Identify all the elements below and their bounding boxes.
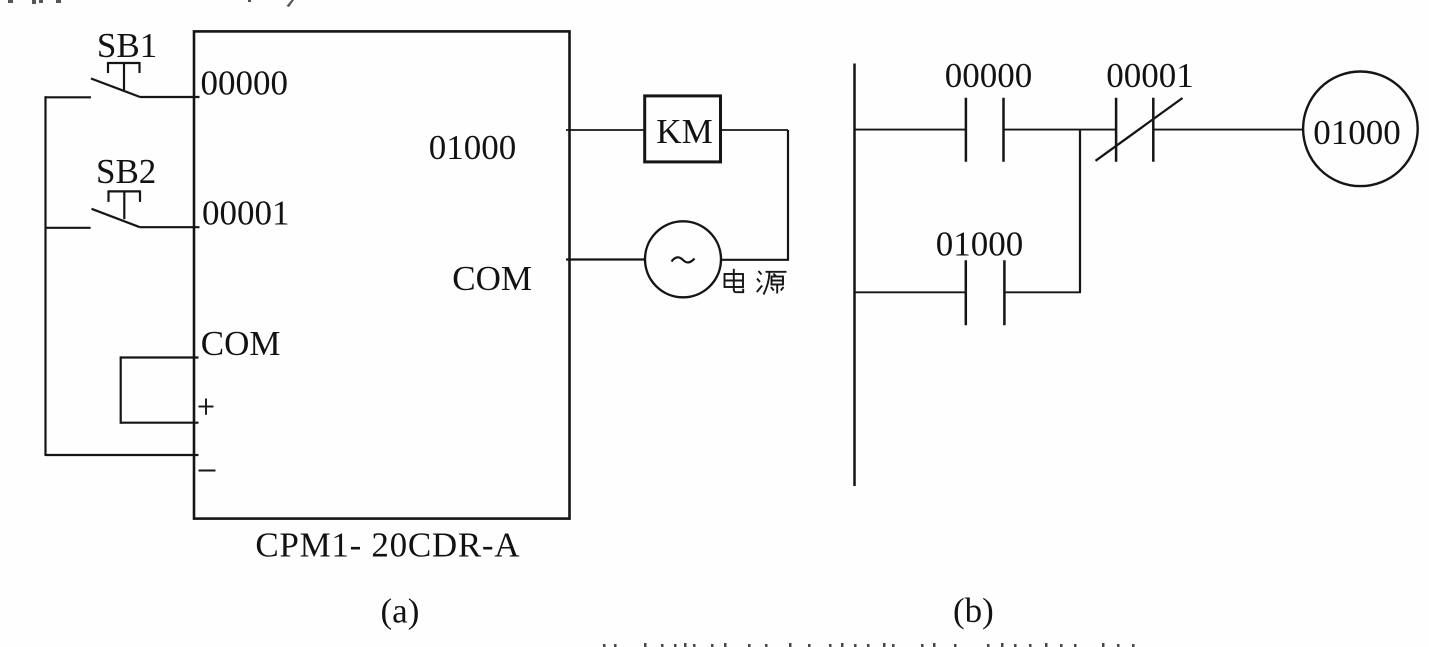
svg-text:00001: 00001 bbox=[202, 193, 290, 232]
svg-text:00000: 00000 bbox=[201, 63, 289, 102]
wire SB2 to input 00001 bbox=[140, 226, 200, 228]
NO contact 00000 bbox=[966, 98, 1004, 162]
svg-text:SB1: SB1 bbox=[97, 26, 157, 65]
svg-text:00001: 00001 bbox=[1106, 56, 1194, 95]
wire COM loop bottom to + terminal bbox=[121, 422, 199, 424]
wire rung2 rail to contact 01000 bbox=[854, 291, 966, 293]
wire contact 01000 to branch bbox=[1004, 291, 1081, 293]
svg-text:COM: COM bbox=[452, 259, 532, 298]
wire source to right corner bbox=[721, 259, 789, 261]
wire rung1 rail to contact 00000 bbox=[854, 129, 966, 131]
svg-text:(b): (b) bbox=[953, 591, 994, 630]
pushbutton SB2 bbox=[92, 190, 141, 227]
label dianyuan power source text bbox=[725, 269, 787, 295]
svg-text:01000: 01000 bbox=[429, 128, 517, 167]
svg-text:01000: 01000 bbox=[936, 225, 1024, 264]
cut-off caption remnants bottom edge bbox=[603, 643, 1135, 647]
svg-text:SB2: SB2 bbox=[96, 152, 156, 191]
wire SB2 left bbox=[45, 227, 91, 229]
PLC box U1 CPM1-20CDR-A bbox=[194, 31, 570, 518]
minus terminal mark bbox=[199, 470, 216, 472]
wire left rail bbox=[44, 96, 46, 456]
svg-text:(a): (a) bbox=[381, 591, 420, 630]
wire contact 00000 to contact 00001 bbox=[1004, 129, 1117, 131]
wire COM loop left bbox=[120, 356, 122, 423]
wire bottom to - terminal bbox=[46, 454, 199, 456]
wire output 01000 to KM bbox=[566, 129, 645, 131]
output coil 01000 circle bbox=[1303, 72, 1418, 187]
wire output COM to source bbox=[566, 258, 645, 260]
wire right vertical bbox=[787, 130, 789, 260]
svg-text:00000: 00000 bbox=[945, 56, 1032, 95]
wire branch vertical junction bbox=[1079, 130, 1081, 293]
wire SB1 left bbox=[45, 96, 92, 98]
svg-text:CPM1- 20CDR-A: CPM1- 20CDR-A bbox=[255, 525, 520, 564]
svg-text:COM: COM bbox=[201, 324, 281, 363]
NC contact 00001 bbox=[1096, 98, 1183, 162]
AC power source G1 circle bbox=[645, 221, 721, 297]
NO contact 01000 bbox=[966, 260, 1005, 325]
AC tilde symbol bbox=[672, 257, 695, 262]
wire COM loop top bbox=[121, 356, 199, 358]
pushbutton SB1 bbox=[91, 62, 140, 97]
svg-text:01000: 01000 bbox=[1313, 113, 1401, 152]
contactor coil KM box bbox=[645, 96, 721, 162]
wire SB1 to input 00000 bbox=[140, 96, 200, 98]
wire contact 00001 to coil bbox=[1153, 129, 1302, 131]
ladder left power rail bbox=[853, 64, 856, 487]
plus terminal mark bbox=[199, 399, 214, 415]
svg-text:KM: KM bbox=[656, 112, 712, 151]
cut-off text remnants top edge bbox=[8, 0, 294, 7]
wire KM to right corner bbox=[721, 129, 789, 131]
